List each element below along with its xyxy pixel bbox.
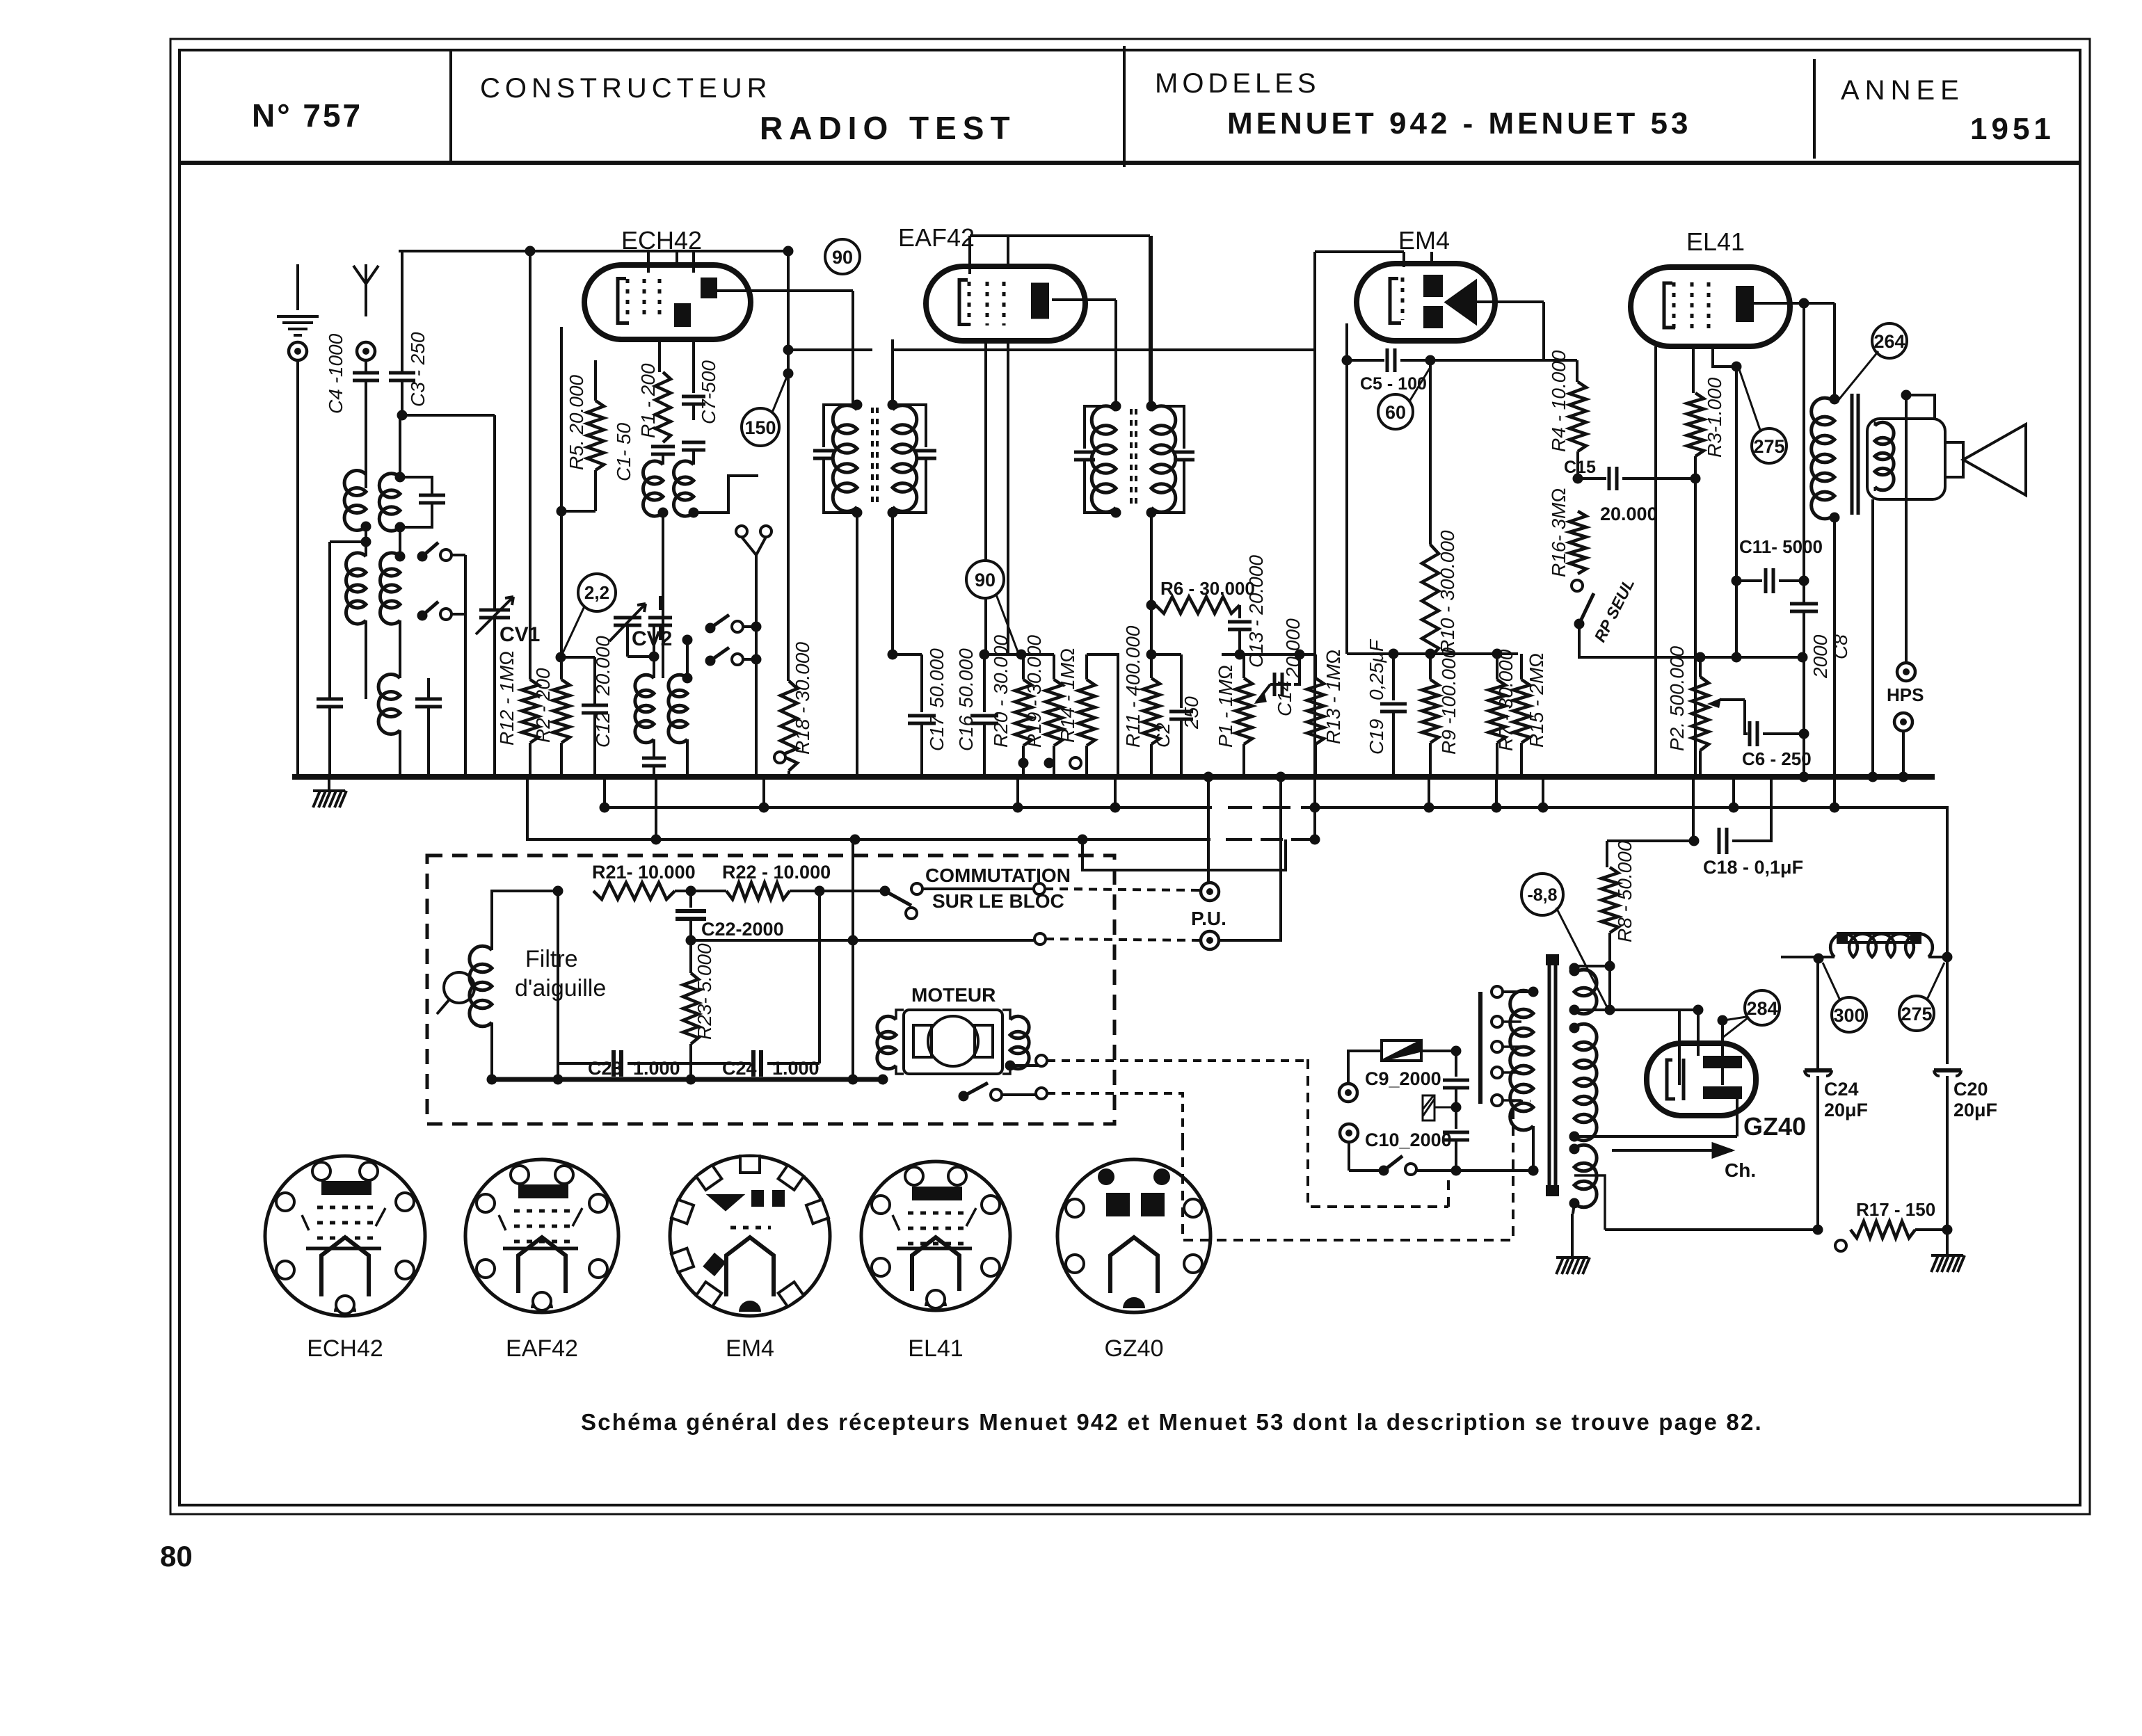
wire pin drop: [1007, 341, 1009, 654]
svg-text:C11- 5000: C11- 5000: [1739, 536, 1823, 557]
svg-text:C17: C17: [926, 714, 948, 751]
capacitor ant foot: [317, 699, 343, 707]
svg-text:275: 275: [1901, 1004, 1932, 1024]
svg-text:C16: C16: [955, 715, 977, 751]
switch RP: [1572, 580, 1583, 591]
variable capacitor CV2: [614, 618, 641, 625]
circle 275a: [1752, 428, 1787, 463]
terminal right edge 2: [1034, 933, 1046, 945]
terminal right edge: [1034, 883, 1045, 894]
svg-text:EM4: EM4: [1398, 226, 1450, 255]
coil BC: [399, 527, 401, 556]
capacitor C13-20000: [1238, 605, 1241, 618]
IF1 core: [872, 408, 877, 508]
resistor R4-10000: [1569, 382, 1586, 451]
switch commutation: [820, 890, 885, 892]
capacitor C9-2000: [1455, 1051, 1457, 1077]
resistor R20-30000: [1022, 654, 1025, 680]
capacitor osc foot: [415, 699, 442, 707]
svg-text:C10_2000: C10_2000: [1365, 1130, 1452, 1150]
svg-text:R1 - 200: R1 - 200: [637, 363, 659, 438]
IF2 secondary coil: [1151, 406, 1176, 512]
svg-text:284: 284: [1746, 998, 1777, 1019]
tube EL41: [1631, 267, 1790, 346]
capacitor C8-2000: [1790, 604, 1818, 611]
svg-text:EM4: EM4: [726, 1335, 774, 1362]
wire anode: [707, 289, 853, 292]
wire PU feed: [1207, 777, 1210, 883]
wire motor bottom: [896, 1095, 932, 1097]
resistor R17-150: [1835, 1240, 1846, 1251]
circle 90a: [825, 239, 860, 274]
terminal PU bottom: [1201, 931, 1219, 949]
wire: [1348, 1142, 1350, 1171]
dashed PU links: [1045, 889, 1201, 890]
svg-text:GZ40: GZ40: [1104, 1335, 1163, 1362]
wire: [464, 555, 467, 777]
wire: [1087, 654, 1118, 777]
svg-text:C23: C23: [588, 1058, 623, 1079]
pickup: [444, 972, 474, 1003]
header divider 3: [1813, 59, 1816, 159]
svg-text:C15: C15: [1564, 458, 1596, 477]
coil MW: [346, 553, 366, 624]
svg-text:C13 - 20.000: C13 - 20.000: [1245, 555, 1267, 668]
svg-text:-8,8: -8,8: [1527, 885, 1557, 905]
ground small: [1434, 1107, 1456, 1109]
svg-text:R14 - 1MΩ: R14 - 1MΩ: [1057, 648, 1078, 743]
wire: [1803, 657, 1805, 777]
socket EM4: [670, 1156, 830, 1316]
tube EAF42: [926, 266, 1085, 341]
svg-text:ECH42: ECH42: [621, 226, 702, 255]
wire 90 junction: [787, 251, 790, 681]
svg-text:20.000: 20.000: [1282, 618, 1304, 679]
svg-text:EL41: EL41: [1686, 227, 1745, 256]
circle 264: [1872, 323, 1907, 358]
svg-text:C24: C24: [1824, 1079, 1859, 1100]
tank capacitor: [400, 477, 432, 495]
bus filter: [492, 1077, 883, 1082]
svg-text:264: 264: [1873, 331, 1905, 352]
earth terminal: [277, 316, 319, 335]
svg-text:150: 150: [744, 417, 776, 438]
wire: [852, 839, 854, 940]
svg-text:C1- 50: C1- 50: [613, 423, 634, 481]
resistor R9-100000: [1429, 654, 1432, 680]
capacitor C2-250: [1180, 654, 1183, 708]
svg-text:d'aiguille: d'aiguille: [515, 975, 606, 1002]
svg-text:50.000: 50.000: [926, 648, 948, 708]
wire 284 lead: [1724, 1017, 1746, 1020]
transformer HT winding: [1574, 970, 1597, 1013]
wire primary top: [1497, 990, 1533, 993]
capacitor C5-100: [1347, 359, 1384, 362]
resistor R15-2M: [1520, 654, 1523, 680]
svg-text:ECH42: ECH42: [307, 1335, 383, 1362]
antenna: [353, 264, 378, 316]
ground transformer: [1571, 1214, 1574, 1257]
circle -8,8: [1521, 874, 1563, 915]
wire cathode: [1345, 323, 1348, 654]
capacitor C22-2000: [686, 886, 696, 897]
svg-text:CV1: CV1: [499, 623, 540, 646]
svg-text:CV2: CV2: [632, 627, 672, 650]
wire: [1803, 303, 1805, 604]
potentiometer P1-1M: [1242, 654, 1245, 678]
svg-text:HPS: HPS: [1887, 684, 1924, 705]
capacitor C24-20uF: [1816, 963, 1819, 1068]
wire bracket AVC: [1347, 652, 1518, 655]
svg-text:Ch.: Ch.: [1725, 1159, 1756, 1181]
svg-text:50.000: 50.000: [955, 648, 977, 708]
wire top pins: [970, 236, 1008, 274]
wire bracket: [984, 653, 1054, 656]
terminal PU top: [1201, 883, 1219, 901]
transformer core: [1549, 960, 1556, 1191]
selector taps: [1492, 1016, 1503, 1027]
wire: [626, 625, 629, 657]
wire HT right: [1946, 957, 1949, 1064]
wire EM4 feed: [1576, 360, 1578, 382]
terminal C9: [1339, 1084, 1357, 1102]
switch mains: [1379, 1166, 1389, 1176]
wire: [689, 1044, 692, 1079]
resistor R3-1000: [1692, 346, 1695, 393]
svg-text:R12 - 1MΩ: R12 - 1MΩ: [496, 650, 518, 746]
wire: [852, 940, 854, 1079]
resistor R11-400000: [1143, 678, 1160, 744]
choke: [1781, 956, 1835, 958]
IF2 core: [1131, 409, 1136, 509]
capacitor C1-50: [651, 447, 675, 454]
svg-text:R8 - 50.000: R8 - 50.000: [1614, 840, 1636, 942]
resistor R13-1M: [1314, 654, 1317, 678]
svg-text:ANNEE: ANNEE: [1841, 75, 1965, 106]
terminal HPS2: [1894, 713, 1912, 731]
wire cathode: [984, 341, 987, 654]
svg-text:EAF42: EAF42: [898, 223, 975, 252]
svg-text:C4 -1000: C4 -1000: [325, 333, 346, 414]
svg-text:GZ40: GZ40: [1743, 1112, 1806, 1141]
wire left: [1313, 252, 1316, 839]
capacitor C15-20000: [1576, 451, 1579, 479]
IF1 secondary coil: [893, 405, 917, 511]
wire line C: [1082, 839, 1286, 870]
svg-text:R21- 10.000: R21- 10.000: [592, 862, 696, 883]
svg-text:MODELES: MODELES: [1155, 68, 1320, 99]
transformer secondary 3: [1574, 1145, 1597, 1207]
svg-text:R20 - 30.000: R20 - 30.000: [990, 635, 1012, 748]
wire transformer taps: [1574, 1008, 1698, 1011]
IF1 cap right: [893, 405, 926, 447]
wire bottom tap: [1573, 1203, 1574, 1214]
svg-text:0,25μF: 0,25μF: [1366, 638, 1387, 700]
wire: [818, 891, 821, 1063]
capacitor C12-20000: [561, 657, 595, 705]
svg-text:RADIO TEST: RADIO TEST: [760, 110, 1016, 146]
svg-text:R18 - 30.000: R18 - 30.000: [792, 642, 813, 755]
resistor R18-30000: [781, 681, 797, 771]
wire motor to edge: [1010, 1064, 1040, 1067]
tube GZ40: [1647, 1043, 1756, 1116]
wire: [1430, 359, 1535, 362]
svg-text:Schéma général des récepteurs: Schéma général des récepteurs Menuet 942…: [581, 1409, 1763, 1435]
wire motor left: [896, 1010, 904, 1020]
socket GZ40: [1057, 1159, 1210, 1312]
circle 275b: [1899, 996, 1934, 1031]
transformer primary: [1510, 990, 1533, 1130]
motor coil right: [1010, 1016, 1029, 1069]
output transformer primary: [1830, 394, 1840, 405]
capacitor C6-250: [1745, 700, 1748, 734]
circle 150: [742, 408, 779, 446]
svg-text:90: 90: [832, 247, 853, 268]
capacitor C4-1000: [365, 360, 367, 373]
svg-text:C12: C12: [592, 712, 614, 748]
svg-text:90: 90: [975, 570, 996, 590]
svg-text:R9 -100.000: R9 -100.000: [1438, 647, 1460, 755]
wire: [627, 618, 628, 625]
svg-text:R16- 3MΩ: R16- 3MΩ: [1548, 488, 1569, 577]
IF1 cap left: [824, 405, 857, 447]
socket ECH42: [265, 1156, 425, 1316]
capacitor C7-500: [692, 339, 695, 393]
antenna coil secondary: [399, 415, 401, 477]
header divider 1: [449, 50, 452, 163]
wire anode out: [1052, 298, 1116, 301]
resistor R19-30000: [1053, 654, 1055, 680]
svg-text:20.000: 20.000: [1600, 504, 1658, 524]
osc coil 4: [686, 640, 689, 678]
IF2 cap right: [1151, 406, 1184, 449]
resistor R1-200: [658, 339, 661, 372]
socket EAF42: [465, 1159, 618, 1312]
wire osc grid: [628, 582, 663, 596]
wire switch common: [755, 555, 758, 777]
capacitor C11-5000: [1736, 579, 1762, 582]
capacitor C19-025: [1392, 654, 1395, 700]
resistor R16-3M: [1577, 479, 1578, 511]
svg-text:EL41: EL41: [908, 1335, 963, 1362]
capacitor osc series: [642, 758, 666, 766]
wire: [1150, 605, 1153, 654]
resistor R23-5000: [683, 973, 698, 1044]
wire line A: [605, 807, 1947, 966]
circle 300: [1832, 997, 1867, 1032]
circle 2,2: [578, 574, 616, 611]
svg-text:300: 300: [1833, 1005, 1864, 1026]
capacitor C18-01: [1692, 777, 1695, 841]
svg-text:C3 - 250: C3 - 250: [407, 332, 429, 407]
svg-text:R11 - 400.000: R11 - 400.000: [1122, 625, 1144, 748]
capacitor C3-250: [401, 251, 403, 373]
svg-text:C7-500: C7-500: [698, 360, 719, 424]
svg-text:C14: C14: [1274, 681, 1295, 716]
capacitor C23-1000: [614, 1050, 621, 1077]
wire: [627, 596, 628, 610]
IF2 cap left: [1085, 406, 1116, 449]
dashed links: [1308, 1059, 1448, 1207]
resistor R21-10000: [593, 883, 675, 899]
wire AVC line: [788, 348, 1315, 351]
wire: [493, 415, 496, 610]
svg-text:P1 - 1MΩ: P1 - 1MΩ: [1215, 664, 1236, 748]
wire tap mid: [1574, 1099, 1737, 1136]
capacitor C10-2000: [1443, 1132, 1469, 1140]
antenna coil primary: [344, 471, 366, 531]
page border inner: [179, 50, 2080, 1505]
wire HT top: [1574, 965, 1610, 967]
svg-text:P.U.: P.U.: [1191, 908, 1226, 929]
circle 90b: [966, 561, 1004, 598]
svg-text:2000: 2000: [1809, 634, 1831, 679]
svg-text:R4 - 10.000: R4 - 10.000: [1548, 350, 1569, 452]
ground right: [1946, 1230, 1949, 1255]
wire: [492, 891, 558, 932]
wire: [1609, 966, 1611, 1010]
wire: [1735, 367, 1738, 657]
dashed box: [427, 855, 1114, 1124]
wire cathode: [1654, 346, 1657, 777]
svg-text:C2: C2: [1152, 723, 1174, 748]
wire C22 row: [691, 939, 1034, 942]
wiper arrow: [1270, 683, 1291, 686]
resistor R12-1M: [529, 251, 531, 680]
capacitor C17-50000: [893, 653, 922, 656]
osc coil 1: [643, 461, 663, 516]
svg-text:C24: C24: [722, 1058, 757, 1079]
svg-text:R17 - 150: R17 - 150: [1856, 1199, 1935, 1220]
capacitor padder: [648, 618, 672, 625]
pickup coil: [470, 946, 492, 1026]
capacitor C16-50000: [983, 654, 986, 712]
wire C23 row: [558, 1062, 691, 1065]
selector plate: [1478, 992, 1482, 1104]
wire: [1429, 360, 1432, 545]
svg-text:1.000: 1.000: [772, 1058, 820, 1079]
oscillator coil low: [399, 666, 401, 678]
svg-text:R6 - 30.000: R6 - 30.000: [1160, 578, 1255, 599]
wire speaker top: [1906, 395, 1935, 419]
tube ECH42: [584, 265, 751, 339]
bottom rail: [1605, 1228, 1818, 1231]
wire GZ40 anode wires: [1678, 1010, 1681, 1085]
band switch 1: [417, 552, 428, 562]
band switch 3: [705, 623, 716, 634]
svg-text:MENUET 942 - MENUET 53: MENUET 942 - MENUET 53: [1227, 106, 1691, 140]
osc coil 2: [673, 461, 694, 516]
svg-text:1.000: 1.000: [633, 1058, 680, 1079]
svg-text:R22 - 10.000: R22 - 10.000: [722, 862, 831, 883]
svg-text:20.000: 20.000: [592, 636, 614, 696]
resistor R6-30000: [1156, 597, 1240, 613]
resistor R5-20000: [594, 360, 597, 401]
svg-text:80: 80: [160, 1540, 193, 1573]
circle 284: [1745, 990, 1780, 1025]
wire EL41 grid: [1713, 346, 1736, 367]
page border outer: [170, 39, 2090, 1514]
svg-text:R3-1.000: R3-1.000: [1704, 377, 1725, 458]
IF1 primary coil: [833, 405, 857, 511]
wire top rail 2: [970, 234, 1150, 237]
chassis bus: [292, 774, 1935, 780]
motor coil left: [877, 1016, 896, 1069]
wire bracket C2: [1151, 653, 1181, 656]
svg-text:R23- 5.000: R23- 5.000: [694, 943, 715, 1040]
header divider 2: [1123, 46, 1126, 167]
wire pin stubs: [648, 251, 694, 273]
svg-text:R13 - 1MΩ: R13 - 1MΩ: [1322, 649, 1344, 744]
svg-text:CONSTRUCTEUR: CONSTRUCTEUR: [480, 73, 772, 104]
svg-text:2,2: 2,2: [584, 582, 609, 603]
wiper arrow P2: [1720, 698, 1745, 701]
wire anode: [1477, 300, 1544, 303]
wire GZ40 plate lead: [1574, 1099, 1737, 1136]
wire motor right: [1002, 1010, 1010, 1020]
svg-text:N° 757: N° 757: [252, 97, 362, 134]
osc coil 3: [653, 625, 655, 678]
header separator: [179, 161, 2080, 165]
wire line B: [527, 777, 1311, 839]
tube EM4: [1357, 264, 1495, 341]
band switch 2: [417, 611, 428, 621]
svg-text:COMMUTATION: COMMUTATION: [925, 865, 1071, 886]
fuse: [1364, 1050, 1382, 1052]
svg-text:P2. 500.000: P2. 500.000: [1666, 646, 1688, 751]
potentiometer P2-500000: [1699, 657, 1702, 677]
wire primary bottom: [1412, 1169, 1533, 1172]
svg-text:C6 - 250: C6 - 250: [1742, 748, 1812, 769]
svg-text:20μF: 20μF: [1953, 1100, 1997, 1120]
output transformer secondary: [1875, 422, 1894, 490]
band switch 4: [705, 656, 716, 666]
switch motor: [959, 1091, 969, 1102]
output transformer core: [1852, 394, 1858, 515]
speaker: [1867, 419, 1945, 499]
wire osc link: [694, 476, 758, 513]
variable capacitor CV1: [479, 610, 510, 618]
wire: [595, 360, 596, 401]
svg-text:R19 - 30.000: R19 - 30.000: [1023, 635, 1045, 748]
svg-text:C18 - 0,1μF: C18 - 0,1μF: [1703, 857, 1803, 878]
capacitor C24b-1000: [753, 1050, 761, 1077]
capacitor C14-20000: [1274, 673, 1282, 696]
svg-text:R5. 20.000: R5. 20.000: [566, 375, 587, 470]
wire anode line: [1752, 302, 1835, 305]
svg-text:275: 275: [1753, 436, 1784, 457]
svg-text:60: 60: [1385, 402, 1406, 423]
wire: [557, 891, 559, 1079]
svg-text:C8: C8: [1830, 634, 1851, 659]
svg-text:C20: C20: [1953, 1079, 1988, 1100]
svg-text:1951: 1951: [1970, 112, 2055, 146]
wire speaker return: [1871, 499, 1874, 777]
capacitor C20-20uF: [1934, 1068, 1961, 1072]
svg-text:C19: C19: [1366, 719, 1387, 755]
svg-text:MOTEUR: MOTEUR: [911, 984, 996, 1006]
wire ch arrow: [1612, 1149, 1732, 1152]
resistor R8-50000: [1601, 867, 1618, 933]
svg-text:C22-2000: C22-2000: [701, 919, 784, 940]
wire: [1535, 359, 1577, 362]
svg-text:C9_2000: C9_2000: [1365, 1068, 1441, 1089]
circle 60: [1378, 394, 1413, 429]
svg-text:Filtre: Filtre: [525, 946, 578, 972]
resistor R10-300000: [1422, 545, 1439, 657]
wire bracket P1: [1222, 653, 1316, 656]
ground left: [328, 777, 330, 791]
